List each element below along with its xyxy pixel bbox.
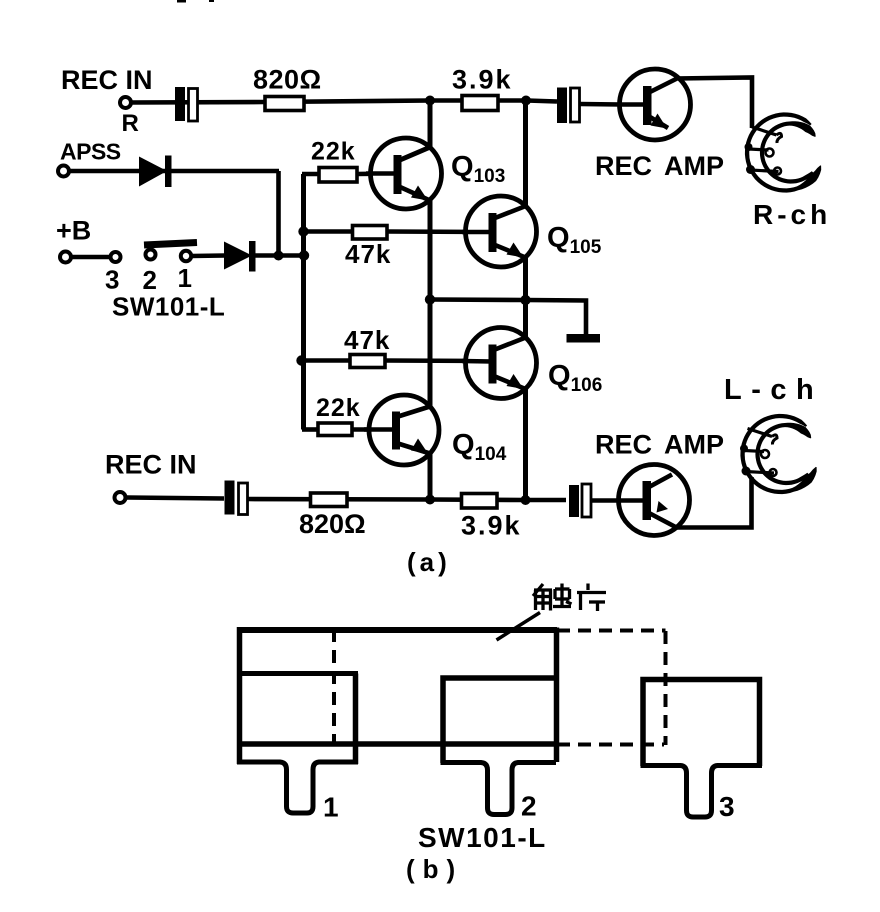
terminal plate 2 outline <box>443 678 556 763</box>
svg-text:820Ω: 820Ω <box>299 509 366 539</box>
svg-text:3: 3 <box>719 791 735 822</box>
capacitor C2 left plate <box>557 88 567 124</box>
transistor U1 REC AMP R <box>618 69 691 140</box>
resistor R7 820ohm bottom <box>311 493 348 507</box>
wire middle emitter rail to ground <box>430 300 586 337</box>
transistor Q103 <box>366 138 442 209</box>
svg-text:1: 1 <box>178 263 192 293</box>
dashed plate extension right vertical <box>664 631 668 745</box>
svg-text:R: R <box>122 110 139 137</box>
contact plate bottom line <box>237 741 556 747</box>
resistor R1 820ohm top <box>265 97 304 111</box>
svg-text:1: 1 <box>323 792 339 823</box>
svg-text:3.9k: 3.9k <box>452 65 513 95</box>
wire REC IN R top run <box>130 101 557 103</box>
wire bias bus corner to 22k R3 <box>302 172 319 177</box>
svg-text:+B: +B <box>56 216 91 246</box>
terminal tab 3 <box>641 766 763 818</box>
terminal REC IN R <box>120 97 131 108</box>
wire left collector/emitter bus x=430 <box>428 101 433 500</box>
svg-text:47k: 47k <box>344 325 390 355</box>
wire bias bus corner to 22k R6 <box>302 427 318 432</box>
SECTION_B <box>237 613 762 818</box>
svg-text:REC IN: REC IN <box>105 450 197 480</box>
svg-text:22k: 22k <box>316 394 361 422</box>
wire +B terminal to switch contact 3 <box>70 255 111 260</box>
transistor Q106 <box>462 328 537 399</box>
wire 22k R6 to Q104 base <box>351 427 394 432</box>
wire bottom cap C4 to REC AMP base <box>590 498 620 503</box>
switch SW101-L contact 2 <box>146 250 156 260</box>
contact plate top edge <box>237 627 557 633</box>
terminal APSS <box>58 166 69 177</box>
node dot top wire x430 <box>425 96 435 106</box>
capacitor C1 right plate <box>189 89 198 122</box>
svg-text:R-ch: R-ch <box>753 199 831 230</box>
wire top REC AMP collector to R-ch head <box>675 78 752 129</box>
terminal plate 1 top edge <box>237 671 358 676</box>
scan speck top edge 1 <box>177 0 186 3</box>
terminal REC IN L <box>115 492 126 503</box>
head L-ch <box>740 414 817 494</box>
wire 47k R4 to Q105 base <box>386 229 490 234</box>
resistor R6 22k lower <box>318 423 352 436</box>
svg-text:SW101-L: SW101-L <box>418 822 547 853</box>
svg-text:SW101-L: SW101-L <box>112 292 225 322</box>
diode D2 cathode bar <box>249 241 256 272</box>
capacitor C2 right plate <box>571 88 580 122</box>
svg-text:(b): (b) <box>406 854 463 884</box>
wire APSS run to corner <box>68 169 279 174</box>
wire APSS vertical drop <box>276 171 281 256</box>
node dot APSS drop on +B line <box>274 251 284 261</box>
capacitor C4 left plate <box>569 485 579 517</box>
transistor Q104 <box>364 395 439 465</box>
terminal tab 1 <box>237 762 358 813</box>
svg-text:APSS: APSS <box>60 139 121 165</box>
svg-text:2: 2 <box>143 265 157 295</box>
wire diode D2 to left bias bus <box>254 253 304 258</box>
svg-text:REC IN: REC IN <box>61 65 153 95</box>
resistor R8 3.9k bottom <box>462 494 498 509</box>
resistor R4 47k upper <box>353 226 388 240</box>
switch SW101-L arm <box>144 243 197 246</box>
svg-text:(a): (a) <box>407 547 451 577</box>
switch SW101-L contact 3 <box>111 252 121 262</box>
capacitor C4 right plate <box>582 484 591 517</box>
ground symbol <box>567 334 601 343</box>
switch SW101-L contact 1 <box>181 251 191 261</box>
diode D1 cathode bar <box>165 156 172 188</box>
leader line to contact plate <box>497 613 541 641</box>
wire top cap C2 to REC AMP base <box>580 102 621 107</box>
terminal plate 3 outline <box>643 680 760 767</box>
svg-text:2: 2 <box>521 791 537 822</box>
wire right collector/emitter bus x=525.5 <box>523 101 528 501</box>
terminal +B <box>60 252 71 263</box>
contact plate right edge <box>554 628 560 763</box>
label chupian (contact blade) glyph pian <box>577 584 606 612</box>
svg-text:820Ω: 820Ω <box>253 65 322 95</box>
wire 22k R3 to Q103 base <box>356 171 394 176</box>
node dot bias bus at 47k R5 <box>296 355 306 365</box>
svg-text:22k: 22k <box>311 138 356 166</box>
head R-ch <box>745 112 822 192</box>
node dot top wire x527 <box>521 96 531 106</box>
dashed plate extension top <box>557 629 666 633</box>
node dot middle rail x430 <box>425 294 435 304</box>
node dot middle rail x525 <box>520 295 530 305</box>
capacitor C3 left plate <box>225 481 235 515</box>
resistor R2 3.9k top <box>462 96 498 111</box>
node dot bias bus on +B line <box>299 250 309 260</box>
svg-text:47k: 47k <box>345 239 391 269</box>
diode D2 +B anode triangle <box>224 242 252 270</box>
label chupian (contact blade) glyph chu <box>533 584 572 611</box>
contact plate left edge <box>237 627 243 764</box>
wire bottom REC AMP emitter to L-ch head <box>675 477 752 528</box>
dashed plate extension bottom <box>557 743 664 747</box>
svg-text:3: 3 <box>105 265 119 295</box>
transistor Q105 <box>462 196 537 267</box>
wire bias bus to 47k R5 <box>304 358 351 363</box>
WIRES_A <box>68 78 752 528</box>
node dot bottom wire x525 <box>521 495 531 505</box>
wire bottom cap C3 to junction run <box>248 499 566 500</box>
svg-text:L-ch: L-ch <box>724 374 823 406</box>
wire switch contact 1 to diode D2 <box>191 253 225 258</box>
diode D1 APSS anode triangle <box>139 157 167 187</box>
wire bias bus to 47k R4 <box>304 229 353 234</box>
resistor R5 47k lower <box>350 355 385 368</box>
terminal tab 2 <box>441 763 557 815</box>
transistor U2 REC AMP L <box>617 465 690 536</box>
wire REC IN L bottom run left <box>126 498 224 499</box>
node dot bias bus at 47k R4 <box>298 226 308 236</box>
node dot bottom wire x430 <box>425 495 435 505</box>
svg-text:3.9k: 3.9k <box>461 511 522 541</box>
scan speck top edge 2 <box>209 0 214 2</box>
dashed wiper position line vertical left <box>332 629 336 742</box>
wire 47k R5 to Q106 base <box>384 358 490 363</box>
resistor R3 22k upper <box>319 168 357 183</box>
capacitor C3 right plate <box>239 483 248 515</box>
wire left bias bus x=303.5 <box>301 174 306 430</box>
capacitor C1 left plate <box>175 87 185 121</box>
terminal plate 1 right edge <box>353 674 359 765</box>
